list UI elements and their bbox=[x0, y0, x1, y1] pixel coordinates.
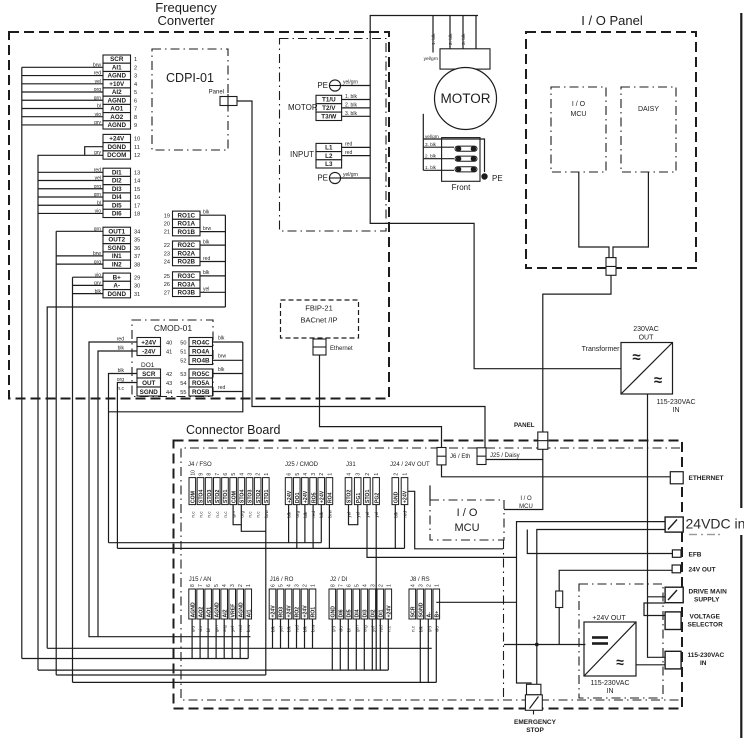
svg-text:RO1C: RO1C bbox=[178, 212, 196, 219]
svg-text:+24V: +24V bbox=[303, 490, 309, 503]
svg-text:J16 / RO: J16 / RO bbox=[270, 577, 294, 583]
svg-text:≈: ≈ bbox=[632, 349, 640, 366]
svg-text:8: 8 bbox=[190, 584, 196, 587]
module I/O MCU (connector board) bbox=[430, 500, 504, 540]
svg-text:3. blk: 3. blk bbox=[345, 111, 357, 117]
terminal block X1 RS485 pins 29-31 bbox=[94, 272, 140, 298]
CMOD terminal DO1 bbox=[117, 368, 161, 396]
svg-text:115-230VAC: 115-230VAC bbox=[656, 399, 695, 406]
wires panel modules to panel connector bbox=[579, 172, 609, 258]
svg-text:STO1: STO1 bbox=[264, 490, 270, 504]
svg-text:8: 8 bbox=[207, 473, 213, 476]
svg-text:+24V: +24V bbox=[287, 605, 293, 618]
wire bus RS485 cable bbox=[73, 276, 104, 278]
svg-text:yel/grn: yel/grn bbox=[343, 80, 358, 86]
stubs J2/DI bbox=[331, 619, 333, 670]
svg-text:RO2C: RO2C bbox=[178, 242, 196, 249]
svg-text:4: 4 bbox=[347, 473, 353, 476]
svg-text:RO5B: RO5B bbox=[192, 389, 210, 396]
wire bus STO cable bbox=[56, 230, 103, 232]
svg-text:n.c: n.c bbox=[410, 625, 415, 632]
svg-text:Connector Board: Connector Board bbox=[186, 423, 281, 437]
svg-text:7: 7 bbox=[215, 473, 221, 476]
module CMOD-01 bbox=[132, 320, 213, 397]
svg-text:8: 8 bbox=[330, 584, 336, 587]
wire J8 B+ to safety rail bbox=[436, 601, 516, 603]
svg-text:6: 6 bbox=[346, 584, 352, 587]
svg-text:AO2: AO2 bbox=[198, 607, 204, 618]
svg-text:DI4: DI4 bbox=[355, 609, 361, 617]
svg-text:3. blk: 3. blk bbox=[461, 33, 467, 45]
svg-text:53: 53 bbox=[180, 372, 186, 378]
right page border bbox=[740, 13, 742, 738]
svg-text:IN1: IN1 bbox=[112, 253, 122, 260]
svg-text:AGND: AGND bbox=[107, 73, 126, 80]
wires J25/CMOD pins down bbox=[288, 505, 290, 543]
svg-text:10: 10 bbox=[190, 470, 196, 476]
svg-text:AGND: AGND bbox=[190, 602, 196, 618]
svg-text:PE: PE bbox=[317, 174, 328, 183]
svg-text:2. blk: 2. blk bbox=[345, 102, 357, 108]
svg-text:6: 6 bbox=[206, 584, 212, 587]
svg-text:J25 / Daisy: J25 / Daisy bbox=[490, 453, 520, 459]
svg-text:J15 / AN: J15 / AN bbox=[189, 577, 212, 583]
svg-text:T2/V: T2/V bbox=[322, 105, 336, 112]
svg-text:RO5: RO5 bbox=[311, 492, 317, 503]
module CDPI-01 bbox=[152, 49, 228, 150]
wire CMOD +24V cable bbox=[89, 342, 250, 637]
Frequency Converter enclosure (dashed) bbox=[9, 32, 389, 399]
svg-text:3: 3 bbox=[247, 473, 253, 476]
svg-text:3: 3 bbox=[356, 473, 362, 476]
svg-text:5: 5 bbox=[354, 584, 360, 587]
pin header J8/RS bbox=[409, 584, 441, 632]
svg-text:Transformer: Transformer bbox=[582, 346, 621, 353]
svg-text:+24V: +24V bbox=[141, 340, 157, 347]
wire run CMOD cables to J25 pins bbox=[109, 542, 322, 544]
svg-text:7: 7 bbox=[134, 107, 137, 113]
svg-text:DRIVE MAIN: DRIVE MAIN bbox=[689, 589, 728, 596]
svg-text:DI1: DI1 bbox=[112, 169, 122, 176]
svg-text:5: 5 bbox=[231, 473, 237, 476]
wire CMOD RO collector bbox=[213, 341, 243, 343]
svg-text:230VAC: 230VAC bbox=[633, 326, 659, 333]
CMOD terminal RO5 bbox=[189, 369, 213, 396]
svg-text:DO1: DO1 bbox=[295, 492, 301, 503]
svg-text:17: 17 bbox=[134, 203, 140, 209]
CMOD terminal +/-24V bbox=[117, 337, 161, 356]
module DAISY (panel) bbox=[621, 87, 676, 172]
wires J31 STO2-PG1 jumper bbox=[349, 505, 358, 525]
svg-text:10: 10 bbox=[134, 137, 140, 143]
wire RO collector bbox=[200, 214, 225, 216]
svg-text:n.c: n.c bbox=[207, 511, 212, 518]
svg-text:6: 6 bbox=[223, 473, 229, 476]
pin header J16/RO bbox=[269, 584, 317, 632]
svg-text:4: 4 bbox=[239, 473, 245, 476]
wire I/O MCU top-left stub bbox=[429, 485, 431, 500]
svg-text:I / O: I / O bbox=[457, 507, 478, 519]
svg-text:-24V: -24V bbox=[142, 349, 156, 356]
svg-text:n.c: n.c bbox=[247, 511, 252, 518]
module I/O MCU (panel) bbox=[551, 87, 606, 172]
stubs J8/RS bbox=[419, 619, 421, 682]
svg-text:RO4: RO4 bbox=[328, 492, 334, 503]
svg-text:50: 50 bbox=[180, 341, 186, 347]
svg-text:OUT: OUT bbox=[639, 335, 655, 342]
fuse links inside front box bbox=[455, 146, 477, 151]
wires J4/FSO pins 5 4 1 bbox=[233, 505, 241, 525]
svg-text:52: 52 bbox=[180, 359, 186, 365]
svg-text:SCR: SCR bbox=[411, 606, 417, 617]
Connector Board enclosure (dashed) bbox=[174, 441, 683, 709]
wire J31 PG2 bbox=[375, 505, 377, 670]
svg-text:ETHERNET: ETHERNET bbox=[689, 475, 724, 482]
svg-text:+24V: +24V bbox=[109, 136, 125, 143]
terminal block RO1 bbox=[173, 211, 201, 236]
svg-text:RO1A: RO1A bbox=[178, 221, 196, 228]
terminal block X1 analogue pins 1-9 bbox=[93, 55, 137, 129]
svg-text:T3/W: T3/W bbox=[321, 114, 336, 121]
cable run RS485 to J8/RS bbox=[73, 681, 437, 683]
svg-text:PG2: PG2 bbox=[374, 493, 380, 503]
wire J31 STO1 bbox=[367, 505, 517, 558]
wire J24 +24V to right rail bbox=[408, 491, 503, 549]
wire motor cable drops bbox=[432, 16, 434, 53]
svg-text:2: 2 bbox=[303, 584, 309, 587]
svg-text:25: 25 bbox=[164, 274, 170, 280]
svg-text:1: 1 bbox=[134, 57, 137, 63]
svg-text:5: 5 bbox=[295, 473, 301, 476]
svg-text:RO2: RO2 bbox=[295, 607, 301, 618]
svg-text:1. blk: 1. blk bbox=[345, 94, 357, 100]
svg-text:DI5: DI5 bbox=[112, 202, 122, 209]
svg-text:38: 38 bbox=[134, 262, 140, 268]
svg-text:IN: IN bbox=[607, 688, 614, 695]
wires input terminals bbox=[342, 146, 371, 148]
svg-text:AI1: AI1 bbox=[246, 609, 252, 617]
svg-text:13: 13 bbox=[134, 170, 140, 176]
wire J4 route to STO cable bbox=[56, 674, 266, 676]
svg-text:A-: A- bbox=[427, 612, 433, 618]
svg-text:2: 2 bbox=[134, 66, 137, 72]
svg-text:34: 34 bbox=[134, 229, 140, 235]
motor junction box bbox=[440, 49, 490, 69]
svg-text:RO4A: RO4A bbox=[192, 349, 210, 356]
svg-text:9: 9 bbox=[198, 473, 204, 476]
wires J24 GND +24V bbox=[394, 505, 396, 549]
svg-text:RO2A: RO2A bbox=[178, 251, 196, 258]
svg-text:CDPI-01: CDPI-01 bbox=[166, 71, 214, 85]
module FBIP-21 bbox=[281, 300, 359, 338]
front box feeder bus bbox=[422, 114, 424, 171]
svg-text:IN2: IN2 bbox=[112, 261, 122, 268]
wire CMOD SCR cable bbox=[109, 374, 138, 543]
svg-text:red: red bbox=[218, 385, 225, 391]
wire transformer to 115VAC in port bbox=[648, 597, 666, 658]
svg-text:DI4: DI4 bbox=[112, 194, 122, 201]
svg-text:DI3: DI3 bbox=[112, 186, 122, 193]
svg-text:9: 9 bbox=[134, 123, 137, 129]
svg-text:1: 1 bbox=[374, 473, 380, 476]
svg-text:SCR: SCR bbox=[110, 56, 124, 63]
svg-text:DI5: DI5 bbox=[347, 609, 353, 617]
svg-text:DI1: DI1 bbox=[379, 609, 385, 617]
PE stud front box bbox=[481, 173, 487, 179]
svg-text:3: 3 bbox=[295, 584, 301, 587]
connector board PCB outline (dash-dot, open right side) bbox=[181, 448, 680, 700]
svg-text:16: 16 bbox=[134, 195, 140, 201]
svg-text:OUT: OUT bbox=[142, 380, 155, 387]
svg-text:DGND: DGND bbox=[107, 144, 126, 151]
svg-text:6: 6 bbox=[287, 473, 293, 476]
svg-text:1: 1 bbox=[327, 473, 333, 476]
PANEL connector bbox=[538, 432, 548, 449]
wire 24VDC in lower to estop rail bbox=[537, 530, 665, 685]
svg-text:INPUT: INPUT bbox=[290, 150, 314, 159]
svg-text:2. blk: 2. blk bbox=[448, 33, 454, 45]
pin header J25/CMOD bbox=[285, 473, 333, 518]
cable run RO to J16/RO bbox=[47, 647, 432, 649]
input terminals bbox=[316, 143, 342, 168]
svg-text:36: 36 bbox=[134, 246, 140, 252]
svg-text:DI6: DI6 bbox=[339, 609, 345, 617]
connector emergency stop bbox=[527, 684, 541, 695]
svg-text:RO4B: RO4B bbox=[192, 358, 210, 365]
svg-text:6: 6 bbox=[134, 98, 137, 104]
svg-text:Panel: Panel bbox=[209, 90, 224, 96]
svg-text:3: 3 bbox=[134, 74, 137, 80]
svg-text:brw: brw bbox=[218, 354, 226, 360]
svg-text:+24V: +24V bbox=[403, 490, 409, 503]
svg-text:OUT2: OUT2 bbox=[108, 237, 125, 244]
svg-text:4: 4 bbox=[287, 584, 293, 587]
svg-text:42: 42 bbox=[166, 372, 172, 378]
svg-text:5: 5 bbox=[134, 90, 137, 96]
svg-text:SGND: SGND bbox=[108, 245, 127, 252]
svg-text:+24V: +24V bbox=[287, 490, 293, 503]
power supply unit bbox=[584, 622, 636, 676]
svg-text:AI2: AI2 bbox=[222, 609, 228, 617]
svg-text:AI1: AI1 bbox=[112, 65, 122, 72]
svg-text:19: 19 bbox=[164, 213, 170, 219]
svg-text:+10V: +10V bbox=[109, 81, 125, 88]
svg-text:DO1: DO1 bbox=[141, 362, 155, 369]
svg-text:2: 2 bbox=[319, 473, 325, 476]
svg-text:+24V: +24V bbox=[271, 605, 277, 618]
svg-text:n.c: n.c bbox=[223, 511, 228, 518]
svg-text:blk: blk bbox=[218, 336, 225, 342]
svg-text:SCR: SCR bbox=[142, 371, 156, 378]
wire motor cable riser bbox=[370, 16, 478, 86]
svg-text:AGND: AGND bbox=[238, 602, 244, 618]
svg-text:BACnet /IP: BACnet /IP bbox=[300, 316, 337, 325]
wire CMOD OUT cable bbox=[117, 383, 137, 549]
wire transformer feed drive main supply bbox=[648, 596, 666, 598]
svg-text:yel/grn: yel/grn bbox=[425, 134, 439, 139]
svg-text:STO4: STO4 bbox=[199, 490, 205, 504]
svg-text:I / O Panel: I / O Panel bbox=[581, 13, 643, 28]
svg-text:RO1: RO1 bbox=[311, 607, 317, 618]
svg-text:MCU: MCU bbox=[519, 504, 533, 510]
svg-text:OUT1: OUT1 bbox=[108, 228, 125, 235]
svg-text:2: 2 bbox=[426, 584, 432, 587]
wire drive main to voltage selector bbox=[644, 603, 665, 616]
svg-text:1: 1 bbox=[386, 584, 392, 587]
fuse F1 bbox=[556, 591, 563, 608]
svg-text:115-230VAC: 115-230VAC bbox=[590, 680, 629, 687]
svg-text:AO1: AO1 bbox=[206, 607, 212, 618]
svg-text:11: 11 bbox=[134, 145, 140, 151]
wire I/O panel to PANEL connector bbox=[543, 275, 611, 432]
svg-text:STO2: STO2 bbox=[256, 490, 262, 504]
svg-text:RO5A: RO5A bbox=[192, 380, 210, 387]
svg-text:DAISY: DAISY bbox=[638, 106, 659, 113]
wire J6/Eth to ETHERNET port bbox=[442, 465, 671, 477]
wire PSU input rail bbox=[504, 644, 585, 646]
svg-text:≈: ≈ bbox=[654, 372, 662, 389]
svg-text:4: 4 bbox=[134, 82, 137, 88]
svg-text:44: 44 bbox=[166, 390, 172, 396]
svg-text:AGND: AGND bbox=[214, 602, 220, 618]
power supply sub-box (dash-dot) bbox=[579, 584, 663, 698]
port DRIVE MAIN SUPPLY (slashed) bbox=[665, 587, 683, 603]
svg-text:22: 22 bbox=[164, 243, 170, 249]
svg-text:4: 4 bbox=[410, 584, 416, 587]
svg-text:COM: COM bbox=[231, 491, 237, 503]
svg-text:STO1: STO1 bbox=[223, 490, 229, 504]
svg-text:2. blk: 2. blk bbox=[425, 154, 437, 159]
pin header J31 bbox=[345, 473, 380, 518]
svg-text:PANEL: PANEL bbox=[514, 422, 535, 429]
pin header J24/24V OUT bbox=[392, 473, 409, 518]
terminal block X1 STO pins 34-38 bbox=[93, 226, 140, 268]
svg-text:30: 30 bbox=[134, 284, 140, 290]
svg-text:DCOM: DCOM bbox=[107, 152, 126, 159]
svg-text:4: 4 bbox=[303, 473, 309, 476]
wire PSU to 115VAC port bbox=[636, 664, 665, 666]
svg-text:DI2: DI2 bbox=[112, 178, 122, 185]
wire bus analogue cable bbox=[22, 66, 103, 68]
svg-text:AO1: AO1 bbox=[110, 106, 123, 113]
pin header J2/DI bbox=[329, 584, 393, 632]
svg-text:AGND: AGND bbox=[107, 122, 126, 129]
svg-text:+24V: +24V bbox=[387, 605, 393, 618]
terminal block RO3 bbox=[173, 272, 201, 297]
svg-text:STO2: STO2 bbox=[347, 490, 353, 504]
svg-text:51: 51 bbox=[180, 350, 186, 356]
svg-text:Converter: Converter bbox=[157, 13, 215, 28]
svg-text:RO2B: RO2B bbox=[178, 259, 196, 266]
svg-text:RO3A: RO3A bbox=[178, 281, 196, 288]
svg-text:J2 / DI: J2 / DI bbox=[330, 577, 348, 583]
svg-text:18: 18 bbox=[134, 212, 140, 218]
svg-text:STO3: STO3 bbox=[207, 490, 213, 504]
svg-text:SELECTOR: SELECTOR bbox=[688, 622, 724, 629]
svg-text:6: 6 bbox=[271, 584, 277, 587]
svg-text:J24 / 24V OUT: J24 / 24V OUT bbox=[390, 462, 430, 468]
svg-text:VOLTAGE: VOLTAGE bbox=[690, 614, 721, 621]
svg-text:PG1: PG1 bbox=[356, 493, 362, 503]
svg-text:2: 2 bbox=[365, 473, 371, 476]
svg-text:Ethernet: Ethernet bbox=[330, 346, 353, 352]
port 24VDC in (slashed) bbox=[665, 517, 683, 532]
svg-text:yel/grn: yel/grn bbox=[343, 172, 358, 178]
svg-text:20: 20 bbox=[164, 222, 170, 228]
stubs J16/RO bbox=[272, 619, 274, 648]
svg-text:STO2: STO2 bbox=[215, 490, 221, 504]
svg-text:n.c: n.c bbox=[215, 511, 220, 518]
svg-text:12: 12 bbox=[134, 153, 140, 159]
svg-text:FBIP-21: FBIP-21 bbox=[305, 304, 333, 313]
svg-text:STOP: STOP bbox=[526, 727, 544, 734]
svg-text:MCU: MCU bbox=[571, 111, 587, 118]
svg-text:1: 1 bbox=[311, 584, 317, 587]
svg-text:STO4: STO4 bbox=[240, 490, 246, 504]
motor front box bbox=[442, 138, 480, 182]
svg-text:GND: GND bbox=[331, 606, 337, 618]
svg-text:MCU: MCU bbox=[454, 522, 479, 534]
wire 24V OUT from PSU fuse bbox=[559, 570, 672, 644]
svg-text:1: 1 bbox=[403, 473, 409, 476]
svg-text:DI6: DI6 bbox=[112, 211, 122, 218]
motor M1 circle bbox=[435, 68, 497, 130]
svg-text:CMOD-01: CMOD-01 bbox=[154, 323, 193, 333]
svg-text:STO3: STO3 bbox=[248, 490, 254, 504]
port 115-230VAC IN bbox=[665, 651, 681, 669]
svg-text:2: 2 bbox=[238, 584, 244, 587]
svg-text:24V OUT: 24V OUT bbox=[689, 567, 716, 574]
svg-text:J31: J31 bbox=[346, 462, 356, 468]
svg-text:SGND: SGND bbox=[140, 389, 159, 396]
svg-text:EMERGENCY: EMERGENCY bbox=[514, 719, 557, 726]
svg-text:SGND: SGND bbox=[419, 602, 425, 617]
svg-text:L2: L2 bbox=[325, 153, 333, 160]
svg-text:4: 4 bbox=[222, 584, 228, 587]
wire CMOD -24V cable bbox=[98, 351, 137, 637]
svg-text:Front: Front bbox=[452, 183, 471, 192]
svg-text:43: 43 bbox=[166, 381, 172, 387]
connector J6/Eth bbox=[437, 448, 446, 465]
svg-text:red: red bbox=[345, 150, 352, 156]
svg-text:MOTOR: MOTOR bbox=[288, 103, 318, 112]
CMOD terminal RO4 bbox=[189, 338, 213, 365]
svg-text:4: 4 bbox=[362, 584, 368, 587]
svg-text:14: 14 bbox=[134, 179, 140, 185]
svg-text:yel/grn: yel/grn bbox=[424, 56, 439, 62]
svg-text:5: 5 bbox=[279, 584, 285, 587]
svg-text:RO3C: RO3C bbox=[178, 273, 196, 280]
svg-text:≈: ≈ bbox=[616, 654, 624, 670]
svg-text:blk: blk bbox=[218, 367, 225, 373]
svg-text:5: 5 bbox=[214, 584, 220, 587]
svg-text:J25 / CMOD: J25 / CMOD bbox=[285, 462, 319, 468]
svg-text:red: red bbox=[345, 142, 352, 148]
pin header J4/FSO bbox=[189, 470, 270, 518]
svg-text:VREF: VREF bbox=[230, 604, 236, 618]
svg-text:STO1: STO1 bbox=[365, 490, 371, 504]
wire PANEL connector to I/O MCU box bbox=[504, 460, 543, 510]
svg-text:RO1B: RO1B bbox=[178, 229, 196, 236]
wire FBIP ethernet to J6/Eth bbox=[320, 355, 442, 448]
highlight 24VDC in bbox=[684, 508, 744, 535]
wire transformer output down bbox=[647, 394, 649, 597]
svg-text:2: 2 bbox=[378, 584, 384, 587]
svg-text:55: 55 bbox=[180, 390, 186, 396]
svg-text:3: 3 bbox=[230, 584, 236, 587]
pin header J15/AN bbox=[189, 584, 253, 632]
svg-text:RO3: RO3 bbox=[279, 607, 285, 618]
